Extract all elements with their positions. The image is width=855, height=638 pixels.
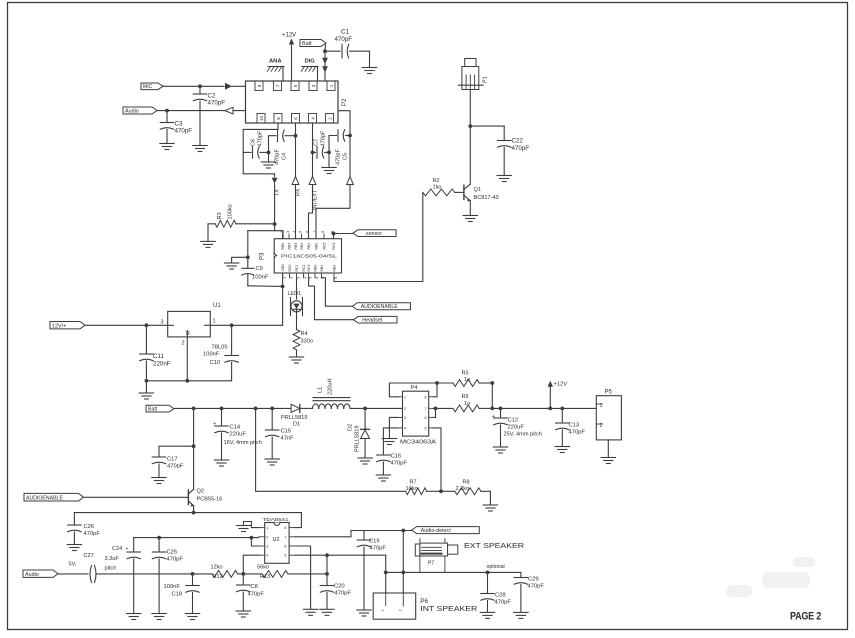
resistor R2 1ko — [423, 178, 464, 196]
capacitor C15 47nF — [265, 408, 294, 458]
svg-text:C12: C12 — [508, 418, 519, 424]
svg-text:1: 1 — [213, 319, 216, 325]
ground (C19) — [357, 610, 371, 616]
svg-text:8: 8 — [334, 277, 338, 279]
svg-text:sensor: sensor — [366, 231, 382, 237]
svg-text:AUDIOENABLE: AUDIOENABLE — [361, 304, 398, 310]
junction R7/R8 to P4 pin5 — [433, 428, 443, 493]
ground (C29) — [514, 612, 528, 618]
svg-text:7: 7 — [425, 407, 427, 411]
svg-text:D2: D2 — [348, 424, 354, 431]
svg-text:3.3uF: 3.3uF — [105, 556, 120, 562]
node Batt flag (top) — [300, 40, 326, 52]
U2 pin 5 — [284, 554, 295, 558]
wire P4 pin3 to ground — [389, 417, 398, 438]
svg-text:C24: C24 — [112, 546, 122, 552]
svg-text:3: 3 — [286, 231, 290, 233]
wire Audio to P2 pin 10 — [157, 107, 259, 114]
junction R5/R6 output node — [490, 381, 494, 410]
connector P1 (jack) — [459, 59, 489, 127]
resistor R6 1o — [433, 394, 492, 412]
ground (C22) — [497, 176, 511, 182]
ground (C5/C7 node) — [322, 152, 336, 173]
svg-text:470pF: 470pF — [258, 130, 264, 146]
label PAGE 2 — [790, 611, 821, 623]
svg-text:R4: R4 — [301, 331, 308, 337]
P4 pin right 8 — [425, 395, 434, 399]
svg-text:RB0: RB0 — [315, 243, 319, 250]
U2 pin 6 — [284, 545, 295, 549]
ground (below C3) — [160, 144, 174, 150]
wire feedback rail — [256, 408, 406, 491]
node AUDIOENABLE flag (left) — [24, 493, 84, 501]
svg-text:100ko: 100ko — [228, 204, 234, 219]
resistor R7 10ko — [406, 480, 442, 495]
capacitor C20 470pF — [320, 574, 351, 609]
capacitor C14 220uF — [213, 408, 262, 459]
svg-text:+: + — [126, 547, 129, 553]
capacitor C3 470pF — [160, 111, 192, 143]
svg-text:470pF: 470pF — [167, 557, 184, 563]
svg-text:100nF: 100nF — [252, 275, 269, 281]
ground (C12) — [493, 447, 507, 453]
junction Batt/C1/pin1 — [323, 49, 327, 53]
svg-text:AUDIOENABLE: AUDIOENABLE — [26, 495, 63, 501]
svg-text:6: 6 — [306, 231, 310, 233]
ground (R3) — [201, 241, 215, 247]
wire P2 pin 2 net — [316, 111, 353, 239]
resistor R4 330o — [293, 316, 313, 357]
svg-text:C14: C14 — [230, 425, 241, 431]
capacitor C24 3.3uF — [105, 538, 141, 613]
svg-text:4: 4 — [266, 554, 268, 558]
svg-text:U1: U1 — [213, 303, 221, 309]
ground (R8) — [483, 505, 497, 511]
wire P2 pin 6 / RX — [292, 123, 302, 239]
ground (C26) — [67, 545, 81, 551]
svg-text:2.2ko: 2.2ko — [456, 486, 470, 492]
P3 pin bottom 2 — [288, 264, 294, 278]
junction TX/R3 — [273, 222, 277, 230]
svg-text:470pF: 470pF — [248, 592, 265, 598]
wire U2 pin7 to Audio-detect — [295, 529, 412, 537]
capacitor C7 470pF — [313, 130, 330, 158]
svg-text:5V,: 5V, — [69, 562, 77, 568]
svg-text:1o: 1o — [464, 401, 470, 407]
ground (C15) — [265, 459, 279, 465]
svg-text:+12V: +12V — [554, 382, 568, 388]
wire PIC to R2 (sensor drive) — [334, 192, 423, 281]
P2 pin 7 (top) — [274, 81, 282, 91]
node MiC input flag — [141, 83, 163, 90]
svg-text:6: 6 — [425, 416, 427, 420]
svg-text:7: 7 — [284, 535, 286, 539]
wire P6 pin1 drop — [385, 572, 387, 606]
diode D2 PRLL5819 — [348, 408, 370, 457]
P4 pin right 6 — [425, 416, 434, 420]
U2 pin 8 — [284, 526, 295, 530]
ANA analog ground (P2 pin 7) — [267, 59, 284, 82]
svg-text:8: 8 — [321, 231, 325, 233]
svg-text:C18: C18 — [172, 592, 183, 598]
svg-text:C28: C28 — [495, 593, 506, 599]
ground (C14) — [214, 460, 228, 466]
node Audio flag (bottom) — [23, 570, 58, 578]
svg-text:1: 1 — [381, 609, 385, 611]
node sensor flag — [332, 230, 397, 239]
svg-text:3: 3 — [266, 545, 268, 549]
resistor R8 2.2ko — [441, 480, 490, 505]
svg-text:RC4: RC4 — [332, 242, 336, 249]
svg-text:470pF: 470pF — [335, 36, 353, 43]
svg-text:Audio-detect: Audio-detect — [421, 528, 452, 534]
P4 pin left 4 — [398, 426, 406, 430]
svg-text:RB5: RB5 — [281, 243, 285, 250]
svg-text:2: 2 — [399, 609, 403, 611]
regulator U1 78L05 — [161, 303, 228, 351]
svg-text:C26: C26 — [84, 524, 95, 530]
svg-text:C11: C11 — [153, 353, 164, 360]
svg-text:P7: P7 — [428, 561, 434, 567]
ground (Q1 emitter) — [463, 216, 477, 222]
capacitor C17 470pF — [152, 457, 184, 478]
P3 pin bottom 7 — [320, 265, 326, 279]
P3 pin bottom 4 — [302, 264, 308, 278]
svg-text:10: 10 — [259, 116, 264, 122]
svg-text:BC817-40: BC817-40 — [474, 195, 499, 201]
svg-text:C5: C5 — [343, 153, 349, 160]
wire U1 ground rail — [145, 379, 232, 393]
P3 pin bottom 5 — [307, 264, 313, 278]
svg-text:2: 2 — [266, 535, 268, 539]
svg-text:R7: R7 — [410, 480, 417, 486]
P2 pin 2 (bottom) — [326, 114, 334, 124]
svg-text:U2: U2 — [273, 537, 280, 543]
P3 pin top 4 — [299, 231, 305, 250]
svg-text:C27: C27 — [84, 553, 94, 559]
svg-text:Q2: Q2 — [197, 489, 204, 495]
svg-text:RC2: RC2 — [302, 264, 306, 271]
svg-text:PIC16C505-04/SL: PIC16C505-04/SL — [281, 253, 337, 259]
transistor Q1 BC817-40 — [464, 126, 499, 215]
svg-text:2: 2 — [182, 341, 185, 347]
svg-text:C8: C8 — [251, 584, 258, 590]
P2 pin 4 (bottom) — [309, 114, 317, 124]
wire P4 pin6 jog — [433, 407, 437, 418]
ground (C28) — [480, 612, 494, 618]
capacitor C12 220uF — [492, 408, 542, 446]
+12V output arrow — [548, 381, 568, 409]
svg-text:L1: L1 — [318, 387, 324, 393]
P3 pin top 3 — [293, 231, 299, 250]
svg-text:8: 8 — [425, 395, 427, 399]
node AUDIOENABLE flag (right) — [321, 278, 410, 310]
svg-text:12V/+: 12V/+ — [52, 323, 66, 329]
svg-text:C22: C22 — [512, 138, 524, 145]
svg-text:330o: 330o — [301, 339, 313, 345]
svg-text:2: 2 — [328, 117, 333, 120]
svg-text:78L05: 78L05 — [212, 345, 228, 351]
svg-text:TX: TX — [275, 189, 281, 196]
svg-text:470pF: 470pF — [84, 531, 101, 537]
resistor R5 1o — [453, 371, 492, 387]
ground (C8) — [236, 611, 250, 617]
svg-text:C25: C25 — [167, 550, 178, 556]
svg-text:1: 1 — [266, 526, 268, 530]
svg-text:R2: R2 — [433, 178, 440, 184]
P3 pin top 6 — [313, 231, 319, 250]
junction C7/C5/ground — [327, 151, 331, 155]
svg-text:C7: C7 — [314, 139, 320, 146]
svg-text:56ko: 56ko — [257, 565, 269, 571]
svg-text:470pF: 470pF — [175, 128, 193, 135]
svg-text:R13: R13 — [260, 574, 270, 580]
wire P3 socket loop bottom — [248, 273, 285, 288]
svg-text:47nF: 47nF — [281, 436, 295, 442]
capacitor C10 100nF — [203, 325, 238, 381]
svg-text:Batt: Batt — [302, 41, 312, 47]
op-amp U? microcontroller P3 PIC16C505-04/SL — [274, 239, 341, 273]
ground (C25) — [152, 614, 166, 620]
svg-text:P5: P5 — [605, 390, 613, 396]
svg-text:470pF: 470pF — [336, 149, 342, 165]
svg-text:Headset: Headset — [362, 317, 383, 323]
svg-text:DIG: DIG — [305, 59, 316, 65]
svg-text:470pF: 470pF — [370, 546, 387, 552]
ground (U2 pin6) — [303, 609, 317, 615]
wire P3 socket loop top — [248, 231, 283, 239]
svg-text:3: 3 — [311, 84, 316, 87]
svg-text:RC3: RC3 — [307, 264, 311, 271]
P3 pin top 7 — [321, 231, 327, 250]
svg-text:470pF: 470pF — [208, 100, 226, 107]
svg-text:8: 8 — [284, 526, 286, 530]
ground (below C2) — [193, 146, 207, 152]
capacitor C18 100nF — [164, 572, 200, 613]
svg-text:R8: R8 — [463, 480, 470, 486]
ground (U2 pin1) — [236, 526, 250, 532]
junction socket/ground tee — [232, 255, 250, 262]
svg-text:4: 4 — [404, 426, 406, 430]
svg-text:5: 5 — [309, 277, 313, 279]
ground (P4 pin3) — [382, 439, 396, 445]
label P6 INT SPEAKER — [420, 598, 478, 613]
svg-text:3: 3 — [161, 320, 164, 326]
P4 pin right 5 — [425, 426, 434, 430]
svg-text:1: 1 — [329, 84, 334, 87]
capacitor C4 470pF — [269, 130, 296, 165]
ground (C16) — [376, 475, 390, 481]
svg-text:7: 7 — [313, 231, 317, 233]
svg-text:470pF: 470pF — [569, 430, 586, 436]
U2 pin 2 — [259, 535, 269, 539]
P2 pin 5 (top) — [291, 81, 299, 91]
svg-text:RB0: RB0 — [314, 265, 318, 272]
svg-text:3: 3 — [404, 416, 406, 420]
connector P5 — [596, 390, 621, 458]
wire U2 pin1 to ground — [244, 522, 259, 528]
svg-text:1: 1 — [600, 403, 603, 409]
svg-text:C17: C17 — [167, 457, 178, 463]
transistor Q2 PCB55-16 — [188, 408, 222, 512]
IC P4 MC34063A — [400, 385, 436, 446]
svg-text:PCB55-16: PCB55-16 — [197, 497, 223, 503]
wire U2 pin3 jog — [251, 538, 258, 546]
capacitor C19 470pF — [357, 531, 386, 610]
svg-text:PAGE 2: PAGE 2 — [790, 611, 821, 623]
capacitor C25 470pF — [152, 538, 183, 613]
svg-text:25V, 4mm pitch: 25V, 4mm pitch — [504, 432, 542, 438]
capacitor C2 470pF — [193, 86, 225, 145]
P3 pin bottom 3 — [295, 264, 301, 278]
svg-text:C20: C20 — [334, 584, 345, 590]
wire 12V/+ to U1 — [86, 323, 167, 327]
svg-text:R12: R12 — [213, 574, 223, 580]
capacitor C27 3.3uF (series) — [59, 553, 213, 583]
junction Q2 collector / C17 branch — [159, 444, 196, 456]
svg-text:R6: R6 — [462, 394, 469, 400]
svg-text:1ko: 1ko — [433, 185, 442, 191]
wire U1 pin 2 — [186, 337, 188, 381]
capacitor C26 470pF — [68, 513, 101, 544]
svg-text:C3: C3 — [175, 121, 183, 128]
diode D1 PRLL5819 — [281, 404, 313, 427]
P3 pin bottom 8 — [333, 265, 339, 279]
P3 pin top 5 — [306, 231, 312, 250]
svg-text:2: 2 — [290, 277, 294, 279]
resistor R12 12ko — [211, 565, 244, 580]
ground (R4) — [289, 357, 303, 363]
capacitor C8 470pF — [237, 574, 265, 611]
svg-text:RB3: RB3 — [294, 243, 298, 250]
svg-text:470pF: 470pF — [495, 600, 512, 606]
wire emitter rail to U2 pin8 — [74, 513, 301, 528]
ground (C20) — [320, 609, 334, 615]
ground (C13) — [555, 447, 569, 453]
capacitor C16 470pF — [377, 428, 408, 475]
ground (P5) — [601, 458, 615, 464]
svg-text:MiC: MiC — [143, 84, 152, 90]
svg-text:8: 8 — [276, 117, 281, 120]
wire pre-amp rail — [134, 536, 259, 540]
P4 pin left 3 — [398, 416, 406, 420]
svg-text:5: 5 — [284, 554, 286, 558]
svg-text:220uF: 220uF — [230, 432, 247, 438]
capacitor C13 470pF — [556, 408, 586, 446]
inductor L1 220uH — [313, 379, 351, 409]
capacitor C6 470pF — [243, 130, 268, 158]
capacitor C9 100nF — [242, 266, 269, 281]
svg-text:220uF: 220uF — [508, 425, 525, 431]
svg-text:MC34063A: MC34063A — [400, 440, 436, 446]
wire P4 pin1 to R5 line — [389, 383, 453, 397]
wire U2 pin5 output — [295, 553, 386, 572]
capacitor C11 220nF — [140, 325, 171, 381]
svg-text:470pF: 470pF — [391, 461, 408, 467]
svg-text:C1: C1 — [341, 29, 349, 36]
svg-text:1o: 1o — [464, 377, 470, 383]
svg-text:6: 6 — [284, 545, 286, 549]
svg-text:6: 6 — [315, 277, 319, 279]
svg-text:LED1: LED1 — [288, 291, 302, 297]
connector P6 INT SPEAKER — [373, 593, 416, 619]
svg-text:RB2: RB2 — [300, 243, 304, 250]
LED LED1 — [288, 278, 303, 316]
svg-text:2: 2 — [280, 231, 284, 233]
node Batt flag (psu) — [146, 405, 174, 412]
svg-text:C29: C29 — [528, 577, 539, 583]
capacitor C29 470pF (optional) — [487, 564, 545, 612]
svg-text:RC5: RC5 — [323, 242, 327, 249]
P4 pin right 7 — [425, 407, 434, 411]
svg-text:10ko: 10ko — [406, 486, 418, 492]
wire speaker rail — [384, 571, 521, 575]
U2 pin 1 — [259, 526, 269, 530]
svg-text:2: 2 — [404, 407, 406, 411]
svg-text:+: + — [492, 414, 495, 420]
wire Batt to P2 pin 1 with arrows — [322, 51, 328, 81]
svg-text:VDD: VDD — [281, 264, 285, 272]
svg-text:4: 4 — [311, 117, 316, 120]
wire P3 socket loop left — [248, 231, 266, 286]
audio amplifier U2 TDA8541 — [263, 517, 290, 563]
svg-text:pitch: pitch — [105, 566, 117, 572]
svg-text:INT/EXT: INT/EXT — [313, 189, 319, 210]
svg-text:R: R — [186, 331, 190, 337]
svg-text:R3: R3 — [217, 212, 223, 219]
svg-text:R5: R5 — [462, 371, 469, 377]
wire pin5 tap to R13 — [325, 555, 329, 576]
ground (U1 rail) — [139, 393, 153, 399]
P2 pin 1 (top) — [327, 81, 335, 91]
svg-text:P4: P4 — [411, 385, 418, 391]
svg-text:470pF: 470pF — [167, 464, 184, 470]
P3 pin bottom 1 — [281, 264, 287, 279]
connector P2 body — [246, 81, 349, 123]
svg-text:PRLL5819: PRLL5819 — [281, 415, 307, 421]
svg-text:470pF: 470pF — [335, 591, 352, 597]
svg-text:C10: C10 — [210, 360, 221, 366]
wire U2 pin6 to ground — [295, 546, 311, 609]
svg-text:Batt: Batt — [148, 406, 158, 412]
connector P7 EXT SPEAKER jack — [415, 539, 458, 573]
wire U1 output — [210, 286, 282, 327]
ground (C24) — [127, 614, 141, 620]
wire L1 to P4 — [350, 407, 403, 411]
node Audio-detect flag — [412, 527, 480, 534]
svg-text:470pF: 470pF — [512, 145, 530, 152]
wire MiC to P2 pin 9 — [163, 83, 257, 90]
svg-text:PRLL5819: PRLL5819 — [355, 426, 361, 452]
svg-text:3: 3 — [297, 277, 301, 279]
P4 pin left 2 — [398, 407, 406, 411]
svg-text:470pF: 470pF — [528, 584, 545, 590]
P3 pin top 1 — [280, 231, 286, 250]
svg-text:RB1: RB1 — [307, 243, 311, 250]
DIG digital ground (P2 pin 3) — [301, 59, 318, 82]
svg-text:RC1: RC1 — [295, 264, 299, 271]
svg-text:INT SPEAKER: INT SPEAKER — [420, 604, 478, 613]
node Audio input flag — [123, 107, 157, 114]
svg-text:ANA: ANA — [269, 59, 282, 65]
svg-text:100nF: 100nF — [164, 584, 181, 590]
wire output rail to P5 — [492, 407, 596, 411]
svg-text:9: 9 — [257, 84, 262, 87]
svg-text:C19: C19 — [369, 539, 380, 545]
P4 pin left 1 — [398, 395, 406, 399]
scan artifact smudges (decorative) — [726, 557, 815, 597]
svg-text:Q1: Q1 — [474, 187, 481, 193]
